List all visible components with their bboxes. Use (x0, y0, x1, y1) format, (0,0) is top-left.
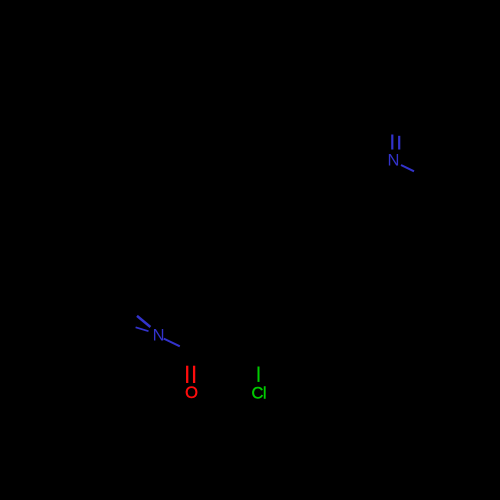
carbonyl O double bond line a (186, 366, 188, 383)
imine N2 bond stub upper-left (137, 316, 150, 327)
pyridine ring N1 single bond stub (401, 165, 414, 171)
svg-text:N: N (153, 326, 165, 344)
chlorine Cl bond stub (258, 367, 260, 382)
imine N2 bond stub left (136, 327, 149, 331)
pyridine ring N1 double bond line b (398, 136, 400, 150)
svg-text:O: O (185, 384, 198, 402)
svg-text:N: N (388, 152, 400, 170)
pyridine ring N1 double bond line a (391, 135, 393, 150)
svg-text:Cl: Cl (252, 384, 267, 402)
carbonyl O double bond line b (193, 366, 195, 383)
imine N2 bond stub lower-right (164, 339, 180, 347)
